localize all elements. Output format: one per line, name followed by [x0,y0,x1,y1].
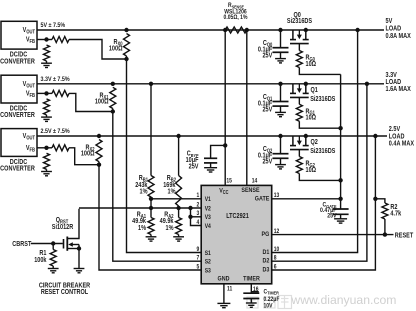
svg-text:25V: 25V [327,213,336,220]
node CQ1 tap on rail [278,82,282,86]
resistor RA2 49.9k [176,218,182,235]
resistor RG0 10ohm [296,51,302,68]
wire tie V2-V3-V4 [191,208,202,226]
ground below VFB2 divider [41,172,52,176]
svg-text:S1: S1 [205,250,212,257]
node RX1 top on rail [111,82,115,86]
ground below QRST source [74,269,85,273]
wire PG/RESET line [272,234,394,236]
node RX0 top on rail [124,28,128,32]
transistor Q1 Si2316DS [292,84,294,94]
node RX0 bottom junction [124,57,128,61]
wire VCC line from rail to pin 15 [224,30,226,185]
svg-text:RESET CONTROL: RESET CONTROL [41,288,88,296]
svg-text:9: 9 [197,246,200,253]
wire D1 net: 5V junction down to pin 10 [272,30,358,253]
resistor feedback series 2 [52,145,69,151]
wire 2.5V rail to RB2 [176,134,180,138]
node CBYP tap [223,143,227,147]
svg-text:Si1012R: Si1012R [52,223,74,231]
node RSENSE right / SENSE tap [245,28,249,32]
ground below VFB1 divider [41,117,52,121]
wire D3 net: 2.5V junction down to pin 6 [272,136,376,270]
wire SENSE line from rail to pin 14 [246,30,248,185]
wire VFB1 series resistor to RX1 node [69,93,113,111]
wire gate bus vertical [340,74,342,198]
svg-text:0.05Ω, 1%: 0.05Ω, 1% [224,14,248,21]
wire 3.3V rail [37,83,384,85]
wire pin 3 stub [191,216,202,218]
ground below RA1 [146,237,157,241]
node Q1 source on rail [304,82,308,86]
svg-text:CONVERTER: CONVERTER [0,58,35,66]
svg-text:LTC2921: LTC2921 [226,212,249,220]
resistor R1 100k [50,250,56,267]
wire S2 net: RX1 node to pin 7 [113,112,201,262]
svg-text:Q2: Q2 [311,139,319,147]
ground below CQ2 [275,165,286,169]
node CQ2 tap on rail [278,134,282,138]
svg-text:0.4A MAX: 0.4A MAX [389,140,415,148]
svg-text:13: 13 [274,193,280,200]
node GATE / CGATE junction [338,197,342,201]
svg-text:100Ω: 100Ω [109,45,123,53]
svg-text:1%: 1% [168,188,176,196]
svg-text:25V: 25V [262,106,273,114]
node 5V load / D1 junction [355,28,359,32]
svg-text:TIMER: TIMER [243,275,260,283]
ground below GND pin [217,303,230,307]
svg-text:11: 11 [227,286,232,293]
svg-text:CONVERTER: CONVERTER [0,112,35,120]
node VFB1 junction [44,91,48,95]
wire CBYP stub [211,145,226,158]
node RX1 bottom junction [111,109,115,113]
node RA1 tap junction [149,206,153,210]
svg-text:www.dianyuan.com: www.dianyuan.com [290,293,396,307]
resistor RB2 169k [176,176,182,207]
node V2 junction [176,206,180,210]
node V3 tie [188,215,192,219]
node 3.3V load / D2 junction [365,82,369,86]
svg-text:10V: 10V [264,303,273,310]
node RSENSE left / VCC tap [223,28,227,32]
wire GATE pin 13 to gate bus [272,198,341,200]
resistor RX0 100ohm [124,34,130,57]
resistor RG2 10ohm [296,157,302,174]
wire V2/V3/V4 bus from QRST drain to pin 2 [79,207,201,209]
wire VFB0 to divider node [37,39,47,41]
node CQ0 tap on rail [278,28,282,32]
resistor R2 4.7k [375,199,385,203]
resistor RSENSE 0.05ohm [225,27,247,33]
svg-text:0.8A MAX: 0.8A MAX [386,32,412,40]
svg-text:25V: 25V [262,52,273,60]
svg-text:Q1: Q1 [311,86,319,94]
wire RG2 to gate bus [299,174,340,181]
transistor QRST Si1012R [64,209,80,269]
svg-text:1%: 1% [138,224,146,232]
svg-text:PG: PG [262,230,270,238]
svg-text:V3: V3 [205,215,211,222]
svg-text:1%: 1% [166,224,174,232]
svg-text:3.3V ± 7.5%: 3.3V ± 7.5% [41,75,71,83]
svg-text:25V: 25V [189,163,200,171]
wire RG1 to gate bus [299,121,340,128]
svg-text:V2: V2 [205,206,211,213]
svg-text:CTIMER: CTIMER [264,289,280,296]
svg-text:GATE: GATE [255,195,269,203]
svg-text:2.5V ± 7.5%: 2.5V ± 7.5% [41,128,71,136]
capacitor CBYP 10uF 25V [204,158,217,163]
resistor feedback lower divider 0 (to ground) [44,45,50,61]
node V2 tie [188,206,192,210]
svg-text:SENSE: SENSE [241,187,259,195]
resistor RA1 49.9k [148,218,154,235]
node R1 junction [51,241,55,245]
node R2 top tap on 2.5V line [373,197,377,201]
svg-text:8: 8 [274,255,277,262]
svg-text:100k: 100k [34,256,47,264]
ground below CTIMER [246,303,257,307]
node gate bus RG1 join [338,126,342,130]
node V1 junction [149,197,153,201]
svg-text:1.6A MAX: 1.6A MAX [386,86,412,94]
capacitor CTIMER 0.22uF 10V [243,293,259,298]
DC/DC converter block 3 (2.5V) [1,129,37,157]
wire VFB2 to divider node [37,147,47,149]
svg-text:S2: S2 [205,259,211,266]
capacitor CQ1 0.1uF 25V [280,84,282,102]
resistor RB1 243k [148,176,154,198]
wire 3.3V rail to RB1 [149,82,153,86]
svg-text:100Ω: 100Ω [95,98,109,106]
svg-text:10: 10 [274,246,280,253]
node QRST source-body junction [77,246,81,250]
svg-text:V4: V4 [205,223,212,230]
resistor RX2 100ohm [96,140,102,162]
resistor feedback series 0 [52,37,69,43]
capacitor CQ2 0.1uF 25V [280,136,282,154]
wire 5V rail [37,29,384,31]
svg-text:RESET: RESET [395,232,414,240]
svg-text:Si2316DS: Si2316DS [287,18,312,26]
DC/DC converter block 2 (3.3V) [1,75,37,103]
svg-text:CBRST: CBRST [12,241,31,249]
wire VFB0 series resistor to RX0 node [69,40,127,60]
svg-text:Si2316DS: Si2316DS [310,147,335,155]
svg-text:S3: S3 [205,268,211,275]
resistor feedback lower divider 2 (to ground) [44,153,50,169]
resistor RX1 100ohm [110,87,116,108]
wire S1 net: RX0 node to pin 9 [127,59,202,253]
wire CBRST input [31,243,63,245]
watermark dianyuan logo glyphs [247,296,292,309]
svg-text:14: 14 [252,178,258,185]
ground below CBYP [204,168,217,172]
ground below CGATE [334,219,347,223]
svg-text:25V: 25V [262,158,273,166]
svg-text:5V ± 7.5%: 5V ± 7.5% [41,22,66,30]
svg-text:1: 1 [197,193,200,200]
wire RB1 bottom to RA1 tap [150,199,152,208]
wire 2.5V rail [37,135,387,137]
ground below VFB0 divider [41,63,52,67]
node gate bus RG2 join [338,178,342,182]
transistor Q0 Si2316DS [292,30,294,40]
wire VFB1 to divider node [37,92,47,94]
capacitor CQ0 0.1uF 25V [280,30,282,48]
node VFB2 junction [44,146,48,150]
svg-text:10Ω: 10Ω [306,60,317,68]
wire D2 net: 3.3V junction down to pin 8 [272,84,367,261]
svg-text:D2: D2 [262,257,269,265]
svg-text:2: 2 [197,202,200,209]
svg-text:1%: 1% [140,188,148,196]
wire S3 net: RX2 node to pin 5 [99,165,201,270]
svg-text:7: 7 [197,255,200,262]
wire VFB2 series resistor to RX2 node [69,148,99,165]
svg-text:4.7k: 4.7k [390,210,401,218]
svg-text:12: 12 [274,229,280,236]
svg-text:3: 3 [197,211,200,218]
svg-text:GND: GND [218,275,230,283]
ground below R1 [48,269,59,273]
node VFB0 junction [44,37,48,41]
node 2.5V load / D3 junction [373,134,377,138]
resistor RG1 10ohm [296,104,302,121]
wire V1 to pin 1 [151,198,201,200]
svg-text:6: 6 [274,264,277,271]
svg-text:5: 5 [197,264,200,271]
transistor Q2 Si2316DS [292,136,294,146]
ground below RA2 [173,237,184,241]
ground below CQ1 [275,112,286,116]
svg-text:100Ω: 100Ω [81,150,95,158]
wire TIMER pin 16 to CTIMER [250,284,252,293]
wire GND pin 11 to ground [223,284,225,304]
resistor feedback series 1 [52,90,69,96]
svg-text:V1: V1 [205,197,212,204]
svg-text:15: 15 [226,178,232,185]
node Q0 source on rail [304,28,308,32]
svg-text:D3: D3 [262,266,269,274]
op-amp U1 LTC2921 body [201,185,272,283]
wire RG0 to gate bus [299,68,340,75]
svg-text:D1: D1 [262,248,269,256]
node RESET junction [383,232,387,236]
svg-text:10Ω: 10Ω [306,166,317,174]
resistor feedback lower divider 1 (to ground) [44,99,50,115]
svg-text:Si2316DS: Si2316DS [310,95,335,103]
ground below CQ0 [275,59,286,63]
node Q2 source on rail [304,134,308,138]
svg-text:10Ω: 10Ω [306,114,317,122]
node RX2 top on rail [97,134,101,138]
DC/DC converter block 1 (5V) [1,21,37,49]
capacitor CGATE 0.47uF 25V [340,199,342,209]
node RX2 bottom junction [97,163,101,167]
svg-text:CONVERTER: CONVERTER [0,165,35,173]
